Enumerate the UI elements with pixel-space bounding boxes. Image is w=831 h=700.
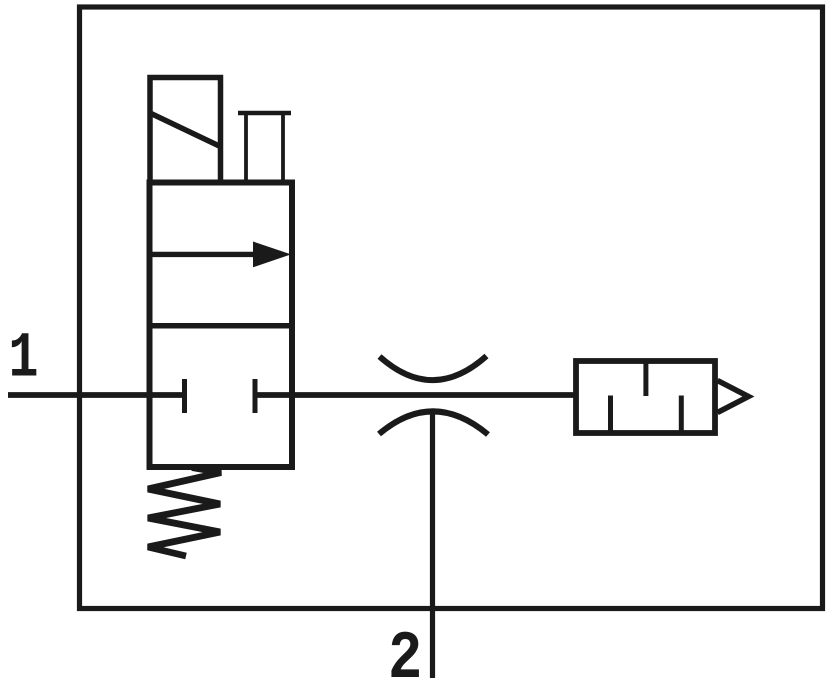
svg-text:1: 1 [9, 323, 39, 395]
silencer baffle bottom right [679, 396, 684, 434]
restrictor upper arc [380, 356, 487, 380]
blocked port T left [182, 379, 187, 413]
restrictor lower arc [379, 411, 488, 434]
silencer U1 body [576, 361, 715, 433]
flow arrow in open position [150, 252, 263, 257]
svg-text:2: 2 [388, 621, 422, 698]
wire port 2 vertical [430, 412, 435, 678]
enclosure border [80, 7, 823, 609]
valve V1 body [150, 183, 293, 468]
wire port 1 to valve [8, 392, 185, 398]
manual override right side [281, 112, 285, 183]
solenoid diagonal [150, 113, 220, 147]
return spring [148, 468, 221, 557]
manual override cap [238, 111, 291, 116]
silencer baffle bottom left [608, 396, 613, 434]
valve position divider [150, 323, 293, 329]
solenoid coil box [150, 78, 221, 183]
silencer baffle top [643, 361, 648, 396]
blocked port T right [253, 379, 258, 413]
wire valve to silencer [255, 392, 576, 398]
manual override left side [244, 112, 248, 183]
silencer outlet chevron [718, 381, 749, 413]
flow arrow head [253, 242, 291, 268]
